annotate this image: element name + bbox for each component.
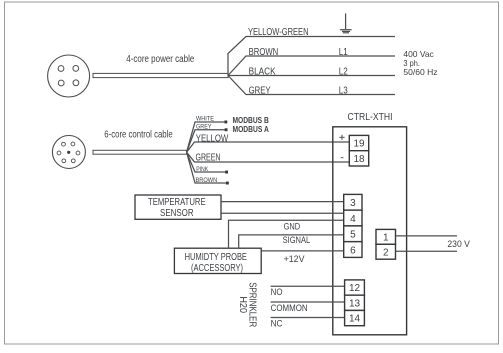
terminal 18 <box>349 151 368 166</box>
svg-text:2: 2 <box>383 247 389 258</box>
svg-text:NO: NO <box>271 287 283 298</box>
wire brown small <box>187 152 226 183</box>
svg-text:230 V: 230 V <box>447 239 470 250</box>
cable W1 (4-core power cable) <box>93 73 228 77</box>
svg-text:6: 6 <box>350 245 356 256</box>
svg-text:13: 13 <box>349 299 361 310</box>
wire white (Modbus B) <box>187 122 225 152</box>
svg-text:SIGNAL: SIGNAL <box>283 235 311 245</box>
svg-text:BROWN: BROWN <box>196 177 218 184</box>
terminal 6 <box>344 242 362 258</box>
svg-text:GREEN: GREEN <box>196 152 221 164</box>
svg-text:SENSOR: SENSOR <box>160 208 194 219</box>
ground symbol <box>340 13 352 32</box>
wire NC to terminal 14 <box>271 317 345 319</box>
svg-text:4: 4 <box>350 214 356 225</box>
label 400 Vac 3 ph. 50/60 Hz <box>403 49 437 77</box>
wire grey (Modbus A) <box>187 130 225 152</box>
terminal 5 <box>344 226 362 242</box>
wire green to terminal 18 <box>187 152 351 162</box>
svg-text:GREY: GREY <box>249 86 271 97</box>
terminal 12 <box>345 280 365 295</box>
controller box U1 CTRL-XTHI <box>333 127 407 335</box>
wire temp sensor to terminal 3 <box>221 201 344 203</box>
wire grey L3 <box>228 76 395 95</box>
connector J2 (6-core control plug) <box>52 136 85 169</box>
svg-text:MODBUS B: MODBUS B <box>233 116 269 125</box>
svg-text:YELLOW: YELLOW <box>196 132 228 144</box>
terminal 14 <box>345 310 365 325</box>
wire pink <box>187 152 226 172</box>
svg-text:18: 18 <box>353 154 365 165</box>
terminal 19 <box>349 135 368 150</box>
junction dot pink <box>225 171 228 174</box>
svg-text:GREY: GREY <box>196 123 212 130</box>
humidity probe box <box>174 248 261 274</box>
junction dot white <box>224 121 227 124</box>
wire temp sensor to terminal 4 <box>221 212 344 214</box>
junction dot grey <box>225 128 228 131</box>
svg-text:1: 1 <box>383 233 389 244</box>
wire COMMON to terminal 13 <box>271 301 345 303</box>
svg-text:5: 5 <box>350 230 356 241</box>
svg-text:(ACCESSORY): (ACCESSORY) <box>191 263 243 274</box>
svg-text:PINK: PINK <box>196 166 209 173</box>
wire brown L1 <box>228 56 395 76</box>
svg-text:4-core power cable: 4-core power cable <box>126 54 194 65</box>
svg-text:L3: L3 <box>339 86 348 97</box>
svg-text:MODBUS A: MODBUS A <box>233 125 269 134</box>
svg-text:COMMON: COMMON <box>271 303 308 314</box>
terminal 2 <box>376 244 396 259</box>
svg-text:+12V: +12V <box>284 254 306 264</box>
svg-text:12: 12 <box>349 283 361 294</box>
terminal 4 <box>344 210 362 226</box>
svg-text:TEMPERATURE: TEMPERATURE <box>148 197 206 208</box>
wire NO to terminal 12 <box>271 285 345 287</box>
svg-text:BLACK: BLACK <box>249 67 276 78</box>
wire terminal 1 to 230V <box>396 235 458 237</box>
cable W2 (6-core control cable) <box>93 150 187 154</box>
temperature sensor box <box>135 195 221 219</box>
svg-text:H20: H20 <box>237 296 248 313</box>
wire yellow-green <box>228 37 395 76</box>
connector J1 (4-core power plug) <box>48 55 90 97</box>
terminal 13 <box>345 295 365 310</box>
svg-text:3: 3 <box>350 198 356 209</box>
wire GND to terminal 4 <box>229 220 344 248</box>
svg-text:BROWN: BROWN <box>249 47 279 58</box>
terminal 3 <box>344 194 362 210</box>
svg-text:50/60 Hz: 50/60 Hz <box>403 67 437 77</box>
terminal 1 <box>376 229 396 244</box>
wire yellow to terminal 19 <box>187 142 351 152</box>
svg-text:WHITE: WHITE <box>196 115 215 122</box>
svg-text:L1: L1 <box>339 47 348 58</box>
svg-text:6-core control cable: 6-core control cable <box>104 130 173 141</box>
svg-text:NC: NC <box>271 319 283 330</box>
svg-text:GND: GND <box>284 222 301 232</box>
svg-text:HUMIDTY PROBE: HUMIDTY PROBE <box>185 252 248 263</box>
junction dot brown <box>226 182 229 185</box>
svg-text:YELLOW-GREEN: YELLOW-GREEN <box>248 27 309 38</box>
wire +12V to terminal 6 <box>261 250 344 252</box>
wire terminal 2 to 230V <box>396 250 458 252</box>
wire black L2 <box>228 75 395 77</box>
minus sign <box>341 157 344 159</box>
svg-text:CTRL-XTHI: CTRL-XTHI <box>348 112 393 123</box>
plus sign <box>339 135 344 140</box>
wire SIGNAL to terminal 5 <box>239 235 344 248</box>
svg-text:L2: L2 <box>339 67 348 78</box>
svg-text:19: 19 <box>353 139 365 150</box>
svg-text:14: 14 <box>349 314 361 325</box>
